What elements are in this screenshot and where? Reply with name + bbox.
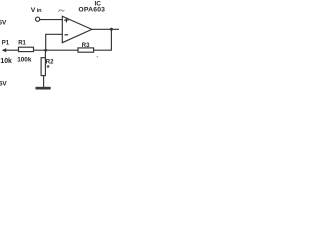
output node junction dot xyxy=(110,28,113,31)
resistor R1 xyxy=(19,47,34,51)
svg-text:5V: 5V xyxy=(0,80,7,87)
svg-text:100k: 100k xyxy=(17,56,32,63)
svg-text:V: V xyxy=(31,7,36,14)
svg-text:R1: R1 xyxy=(18,41,26,47)
wire op-amp output xyxy=(92,28,119,30)
speck below R3 xyxy=(97,56,98,57)
wire - input vertical down to node A xyxy=(45,34,47,51)
node A junction dot xyxy=(44,49,47,52)
svg-text:in: in xyxy=(37,8,43,14)
wire R3 to feedback corner xyxy=(94,49,112,51)
svg-text:P1: P1 xyxy=(2,41,10,47)
wire node A down to R2 xyxy=(44,50,46,57)
svg-text:*: * xyxy=(47,63,50,72)
svg-text:10k: 10k xyxy=(0,58,12,65)
label Vin xyxy=(31,7,42,14)
svg-text:OPA603: OPA603 xyxy=(78,7,105,14)
smudge above op-amp xyxy=(58,10,64,12)
resistor R2 xyxy=(41,58,45,76)
terminal Vin xyxy=(36,17,40,21)
svg-text:5V: 5V xyxy=(0,19,7,26)
ground xyxy=(36,87,51,90)
wire arrow to R1 xyxy=(6,49,19,51)
wire R1 to node A to R3 xyxy=(34,49,79,51)
wire feedback vertical up to output node xyxy=(110,29,112,50)
resistor R3 xyxy=(78,48,94,52)
background xyxy=(0,0,119,90)
wire R2 to ground xyxy=(43,76,45,88)
op-amp U1 OPA603 xyxy=(62,16,92,43)
wire Vin to + input xyxy=(40,19,63,21)
wire - input horizontal xyxy=(46,33,63,35)
wiper arrow from P1 xyxy=(2,48,6,52)
